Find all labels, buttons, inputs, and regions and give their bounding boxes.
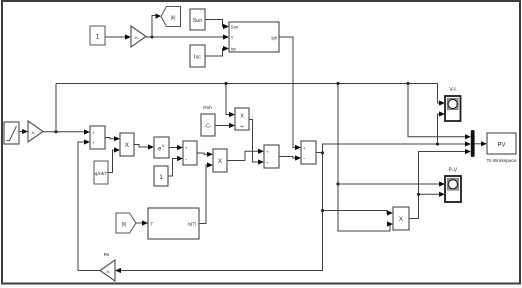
svg-text:+: + [92, 140, 95, 145]
svg-text:X: X [125, 142, 129, 149]
divide block (V/Rsh) [235, 108, 249, 131]
svg-text:-: - [185, 156, 187, 162]
svg-text:-: - [303, 156, 305, 162]
svg-text:[k]: [k] [122, 221, 127, 226]
To Workspace block PV [487, 133, 516, 154]
wire Is(T) up to X2 [199, 162, 213, 223]
constant block "Isc" [190, 45, 205, 67]
svg-text:T: T [151, 222, 154, 227]
sum block S0 (V + I*Rs) [90, 126, 105, 149]
subsystem Iph (photo-current) [229, 22, 279, 52]
svg-text:V-I: V-I [449, 87, 455, 93]
wire V bus down (x=408) to mux input1 [408, 84, 471, 140]
From tag [k] [116, 213, 136, 233]
svg-text:1: 1 [96, 34, 100, 41]
product block X2 [213, 149, 227, 172]
wire V node up [55, 84, 57, 132]
sum block S1 (e^u - 1) [183, 141, 197, 165]
svg-text:-K-: -K- [134, 36, 140, 40]
svg-text:T: T [231, 35, 234, 40]
wire junction up to Goto tag [152, 14, 161, 38]
mux block [471, 130, 475, 157]
gain block (top, -K-) [131, 26, 146, 47]
svg-text:X: X [218, 158, 222, 165]
scope V-I (XY graph) [445, 96, 461, 121]
constant block "Sun" [190, 9, 205, 30]
wire constant1 to gain [105, 34, 131, 39]
scope P-V (XY graph) [445, 176, 461, 202]
wire sum1 to product X2 [197, 152, 213, 157]
svg-text:[k]: [k] [171, 15, 176, 20]
constant block -C- (1/Rsh) [201, 114, 215, 136]
svg-text:-K-: -K- [106, 270, 112, 274]
svg-text:+: + [185, 146, 188, 151]
wire I up and right to mux input2 [323, 141, 472, 152]
svg-text:X: X [240, 113, 244, 119]
svg-text:Rs: Rs [104, 252, 110, 258]
label To Workspace [487, 158, 517, 164]
wire divide output down to sum A input2 [249, 120, 264, 165]
wire -C- to divide [215, 123, 235, 128]
wire Rs feedback into sum0 [78, 139, 100, 270]
wire gain1 output to sum0 with junction [43, 129, 90, 134]
wire Isc to subsystem [205, 46, 229, 56]
wire mux to To Workspace [475, 141, 487, 146]
svg-text:÷: ÷ [240, 124, 244, 131]
svg-text:-K-: -K- [31, 131, 37, 135]
svg-text:Rsh: Rsh [203, 105, 212, 111]
wire I branch up to V-I scope input2 [438, 111, 446, 144]
svg-text:Isc: Isc [194, 55, 201, 61]
svg-text:P-V: P-V [448, 168, 457, 174]
sum block A (Id + Ish) [264, 145, 279, 168]
wire X2 to sum A input1 [227, 149, 264, 161]
wire P branch to P-V scope input2 [419, 192, 446, 197]
wire I down to Rs gain (feedback) [115, 153, 324, 274]
sum block B (Iph - Id - Ish) [301, 141, 316, 164]
subsystem Is(T) saturation current [148, 208, 199, 239]
svg-text:Iph: Iph [271, 35, 277, 40]
wire constant 1 to sum1 minus input [168, 156, 183, 176]
wire gain output with junction node [146, 34, 229, 39]
Goto tag [k] [161, 7, 181, 27]
wire V branch to P-V scope input1 [338, 181, 445, 186]
wire B output to node I [316, 151, 324, 154]
product block X1 [120, 133, 134, 156]
svg-text:PV: PV [497, 143, 505, 149]
label V-I [449, 87, 455, 93]
label P-V [448, 168, 457, 174]
svg-text:+: + [92, 130, 95, 135]
svg-text:Is(T): Is(T) [187, 222, 197, 227]
wire sum A to sum B minus input [279, 155, 301, 160]
wire From tag to Is(T) [136, 220, 148, 225]
wire q/nkT up to X1 [108, 147, 120, 172]
wire I branch to product X3 input1 [323, 210, 394, 215]
label Rs [104, 252, 110, 258]
svg-text:+: + [266, 149, 269, 154]
svg-text:-C-: -C- [205, 124, 212, 130]
gain block (ramp, -K-) [28, 121, 43, 142]
svg-text:To Workspace: To Workspace [487, 158, 517, 164]
svg-text:1: 1 [159, 174, 163, 181]
label Rsh [203, 105, 212, 111]
wire V bus horizontal [56, 82, 438, 85]
wire Iph output down to sum B [279, 37, 301, 150]
wire Sun to subsystem [205, 20, 229, 30]
wire ramp to gain1 [19, 129, 28, 134]
wire X1 to exp [134, 144, 154, 149]
svg-text:q/nkT: q/nkT [95, 171, 108, 176]
wire V bus down to divide input1 [226, 84, 235, 118]
constant block q/nkT [94, 161, 108, 184]
svg-text:Isc: Isc [231, 46, 236, 51]
svg-text:Sun: Sun [231, 24, 239, 29]
svg-text:Sun: Sun [193, 18, 203, 24]
svg-text:X: X [399, 216, 403, 223]
gain block Rs (feedback, points left) [100, 260, 115, 281]
constant block "1" (top) [90, 26, 105, 45]
wire V to V-I scope input1 [438, 84, 446, 106]
product block X3 (P = V*I) [393, 207, 409, 230]
wire sum0 to product X1 [105, 136, 120, 141]
wire X3 output up to mux input3 [409, 149, 471, 219]
svg-text:+: + [303, 146, 306, 151]
wire e^u to sum1 [169, 145, 183, 150]
constant block "1" (middle) [154, 166, 168, 186]
wire V bus down (x=338) to P-V scope and X3 input2 [336, 84, 393, 232]
ramp source block [4, 122, 19, 144]
svg-text:+: + [266, 160, 269, 165]
math function block e^u [154, 137, 169, 158]
